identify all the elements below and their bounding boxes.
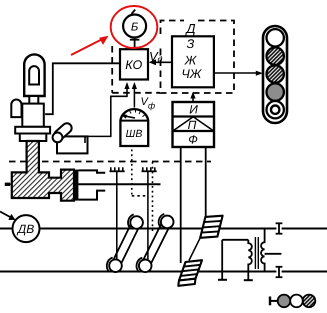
stack leg R [205, 147, 207, 218]
divider I/P [173, 115, 215, 117]
coil interconnect wire [189, 238, 200, 261]
decoder D dashed box [161, 21, 235, 94]
P triangle [174, 117, 214, 131]
SHV timer gauge dome [120, 109, 148, 146]
dotted link to coils [152, 162, 154, 232]
KO box [120, 49, 148, 79]
lamp 2 hatched [267, 47, 284, 64]
piston rod [78, 183, 160, 185]
arrow into KO bottom (left) [124, 82, 129, 89]
dotted link SHV down [131, 150, 133, 196]
handle box tick [84, 136, 86, 143]
contact comb 2 [142, 167, 157, 171]
lamp 5 ring [267, 101, 284, 118]
ground bar left [218, 279, 227, 281]
dashed locomotive boundary vertical [111, 46, 113, 93]
transformer left lead down [221, 240, 223, 279]
B top tick [132, 10, 136, 14]
B stem to KO [134, 38, 136, 50]
left tab [11, 100, 21, 118]
arrow stack to Z box [192, 98, 194, 103]
svg-text:Ж: Ж [184, 53, 198, 67]
svg-text:З: З [187, 37, 195, 51]
handle cylinder [52, 121, 73, 142]
cylinder bottom edge [78, 191, 105, 200]
insulated joint rail2 [276, 267, 283, 277]
lamp 4 gray [267, 83, 284, 100]
svg-text:И: И [189, 103, 198, 117]
comb wire 2 [147, 171, 149, 259]
lamp 3 hatched [267, 65, 284, 82]
primary winding [248, 240, 252, 280]
lamp 1 white [267, 29, 284, 46]
svg-text:Б: Б [131, 21, 139, 33]
SHV chord [120, 120, 148, 122]
svg-text:ЧЖ: ЧЖ [181, 67, 202, 81]
whistle inner U [29, 66, 39, 84]
mini signal mast [269, 297, 271, 306]
svg-text:П: П [188, 118, 197, 132]
wheelset 1 axle [112, 220, 141, 267]
svg-text:ф: ф [148, 100, 155, 110]
secondary tap stub [265, 253, 282, 255]
DV circle [13, 215, 40, 242]
svg-text:КО: КО [125, 58, 142, 72]
wire: EPK device to KO input [45, 63, 120, 114]
whistle neck [29, 96, 38, 104]
svg-text:Ф: Ф [188, 132, 198, 146]
receiving coil upper (over rail1) [200, 216, 222, 238]
B stem tick [130, 39, 140, 41]
comb wire 1 [116, 171, 118, 259]
transformer top wire [222, 239, 248, 241]
wheelset 1 bottom wheel [109, 259, 122, 272]
stack leg L [180, 147, 182, 263]
ground bar mid [244, 279, 253, 281]
collar [22, 104, 44, 127]
arrow to DV [0, 212, 11, 218]
wheelset 2 axle [141, 220, 171, 268]
red arrow [71, 39, 103, 55]
EPK whistle (bell) [24, 54, 44, 96]
wheel arcs 2 [137, 258, 143, 273]
handle knob circle [53, 133, 63, 143]
svg-text:Д: Д [184, 21, 195, 36]
flange 2 [20, 134, 47, 142]
flange 1 [15, 127, 50, 134]
SHV dial ticks [125, 110, 145, 117]
contact comb 1 [110, 167, 125, 171]
svg-text:ДВ: ДВ [16, 222, 34, 236]
vigilance handle knob box [57, 136, 88, 153]
rail 2 [0, 271, 276, 273]
wheelset 2 bottom wheel [139, 260, 152, 273]
wire: handle to KO (up) [88, 84, 127, 136]
wheelset 2 top wheel [161, 216, 174, 229]
wheelset 1 top wheel [130, 216, 143, 229]
arrow Z box to traffic light [214, 72, 256, 74]
red highlight circle [111, 6, 158, 48]
secondary winding [261, 229, 265, 272]
wheel arcs 1 [107, 258, 113, 273]
dashed boundary horizontal (y92.8) [112, 92, 160, 94]
Z/ZH/CHZH signal box [172, 36, 214, 87]
svg-text:ШВ: ШВ [126, 128, 143, 140]
cylinder top edge [78, 170, 105, 172]
mini lamp hatched [303, 295, 316, 308]
transformer core [254, 237, 256, 269]
Vd wire (Z box to KO) with left arrow [153, 61, 172, 63]
dashed lower boundary (y161.5) [9, 161, 211, 163]
dotted link step [132, 195, 148, 197]
receiving coil lower (over rail2) [178, 260, 202, 286]
mini lamp gray [278, 295, 291, 308]
SHV needle [125, 116, 135, 118]
wire SHV to KO with arrow [133, 84, 135, 108]
amplifier stack box [173, 102, 215, 147]
divider P/F [173, 130, 215, 132]
EPK valve hatched cross-section (stem + body + neck + cylinder wall) [12, 141, 74, 201]
B circle [123, 15, 146, 38]
traffic light body [263, 26, 287, 123]
mini lamp white [290, 295, 303, 308]
svg-text:д: д [158, 54, 163, 64]
piston black bar [74, 170, 78, 201]
insulated joint rail1 [276, 223, 283, 233]
rail 1 [0, 228, 13, 230]
arrow into KO bottom (right) [132, 82, 137, 89]
EPK left port arrow [5, 183, 10, 186]
